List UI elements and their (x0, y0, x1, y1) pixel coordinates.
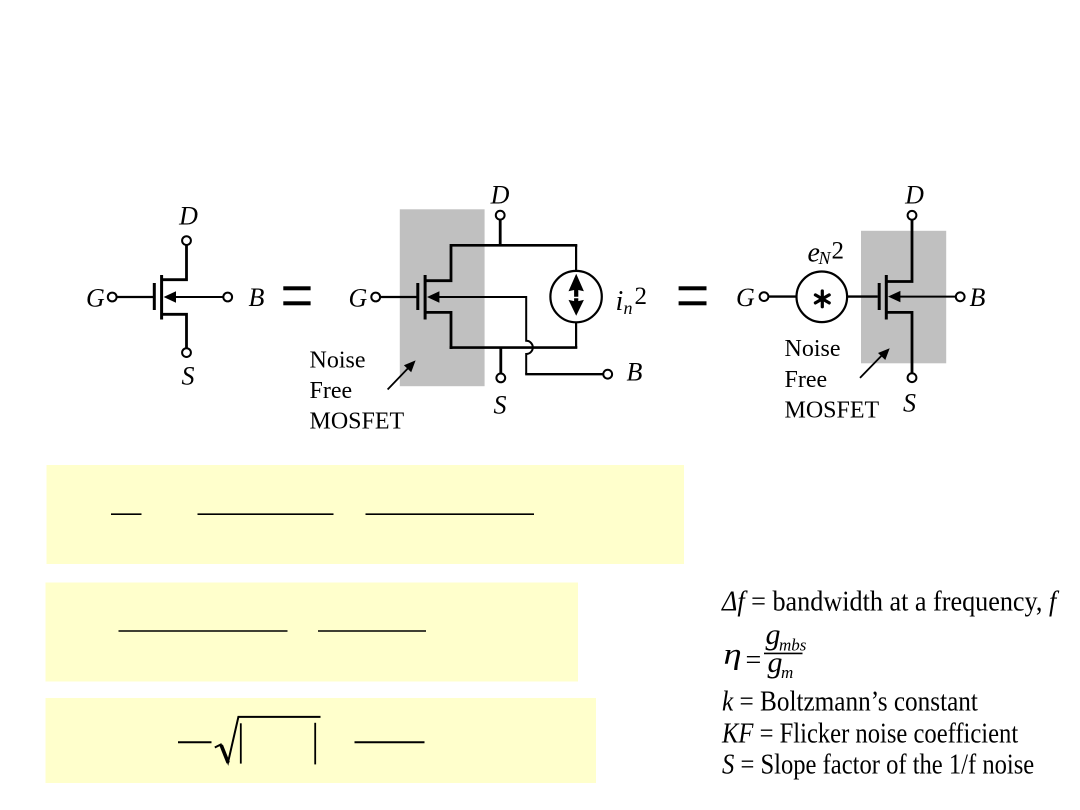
transistor M2 channel bar (424, 275, 427, 320)
M1 gate wire (117, 296, 153, 298)
eq3 fraction bar (355, 741, 425, 743)
svg-text:n: n (624, 298, 633, 318)
svg-text:KF = Flicker noise coefficient: KF = Flicker noise coefficient (721, 717, 1019, 749)
svg-text:Δf = bandwidth at a frequency,: Δf = bandwidth at a frequency, f (721, 584, 1059, 617)
eta fraction denominator g_m (768, 646, 794, 682)
noise voltage source e_N^2 circle (797, 272, 848, 323)
M1 bulk wire (170, 296, 223, 298)
definition line: Boltzmann (722, 685, 978, 717)
terminal S of M3 (908, 373, 917, 382)
annotation arrow (fig 2) (388, 360, 416, 389)
svg-text:D: D (904, 180, 924, 209)
svg-text:2: 2 (832, 238, 845, 265)
svg-text:G: G (736, 283, 755, 312)
svg-text:Free: Free (785, 367, 828, 393)
svg-text:G: G (349, 283, 368, 312)
current source arrow up (569, 274, 584, 297)
terminal B of M2 (603, 370, 612, 379)
eq3 radical sign (215, 717, 321, 763)
terminal S of M1 (182, 348, 191, 357)
current source i_n^2 circle (550, 271, 601, 322)
M2 bulk wire to B terminal (525, 373, 603, 375)
M3 drain wire (887, 220, 912, 282)
terminal S of M2 (496, 374, 505, 383)
svg-text:η: η (724, 638, 742, 671)
svg-text:D: D (490, 180, 510, 209)
M2 source wire down to rail (426, 312, 451, 349)
svg-text:B: B (627, 358, 643, 387)
M2 bulk wire horizontal (433, 296, 526, 298)
eq1 fraction bar c (366, 513, 535, 515)
noise-free region (gray box) fig 3 (861, 231, 946, 363)
terminal G of M1 (108, 293, 117, 302)
svg-text:MOSFET: MOSFET (785, 397, 880, 423)
definition line: bandwidth (721, 584, 1059, 617)
wire from D terminal to top rail (499, 220, 502, 245)
eq1 fraction bar a (111, 513, 142, 515)
M3 source wire (887, 312, 912, 373)
M2 bulk arrowhead (427, 291, 439, 302)
definition eta symbol (724, 638, 742, 671)
transistor M3 gate bar (878, 283, 881, 310)
definition line: slope factor (722, 748, 1034, 780)
equals sign 1 (283, 286, 310, 305)
svg-text:m: m (781, 663, 793, 682)
yellow equation box 1 (47, 465, 685, 564)
eta fraction bar (764, 652, 803, 654)
terminal B of M3 (956, 292, 965, 301)
annotation arrow (fig 3) (860, 348, 890, 378)
terminal B of M1 (223, 293, 232, 302)
svg-text:B: B (249, 283, 265, 312)
eta fraction numerator g_mbs (766, 618, 807, 655)
eq3 right vertical bar (314, 723, 316, 765)
wire from bottom rail to S terminal (499, 348, 502, 374)
terminal D of M3 (908, 211, 917, 220)
M1 source wire (163, 314, 187, 348)
current source arrow down (569, 298, 584, 316)
svg-text:Noise: Noise (310, 348, 366, 374)
svg-text:mbs: mbs (779, 636, 807, 655)
eq3 minus bar (178, 741, 212, 743)
svg-text:G: G (86, 283, 105, 312)
noise-free region (gray box) (400, 209, 485, 386)
wire G terminal to noise source (768, 295, 796, 297)
svg-text:Noise: Noise (785, 336, 841, 362)
M2 drain wire up to rail (426, 246, 451, 280)
transistor M3 channel bar (885, 275, 888, 320)
terminal G of M2 (371, 293, 380, 302)
svg-text:D: D (178, 202, 198, 231)
top rail wire (450, 244, 578, 247)
definition line: flicker noise coefficient (721, 717, 1019, 749)
transistor M2 gate bar (416, 283, 419, 310)
svg-text:B: B (970, 283, 986, 312)
M2 bulk wire vertical with hop over bottom rail (526, 296, 533, 374)
label e_N^2 (808, 238, 845, 269)
equals sign 2 (679, 286, 707, 305)
svg-text:S: S (903, 389, 916, 418)
svg-text:MOSFET: MOSFET (310, 409, 405, 435)
terminal D of M2 (496, 211, 505, 220)
M2 gate wire (380, 296, 417, 298)
label i_n^2 (616, 283, 648, 318)
transistor M1 channel bar (160, 275, 163, 320)
M1 drain wire (163, 245, 187, 280)
eq3 left vertical bar (240, 723, 242, 763)
svg-text:S = Slope factor of the 1/f no: S = Slope factor of the 1/f noise (722, 748, 1034, 780)
eq3 radical thick downstroke (221, 745, 228, 763)
svg-text:N: N (818, 248, 832, 268)
svg-text:k = Boltzmann’s constant: k = Boltzmann’s constant (722, 685, 978, 717)
terminal G of M3 (760, 292, 769, 301)
wire from top rail to current source (575, 245, 577, 272)
bottom rail wire (450, 346, 578, 349)
eq2 fraction bar a (119, 630, 288, 632)
svg-text:Free: Free (310, 378, 353, 404)
svg-text:i: i (616, 286, 624, 317)
wire noise source to M3 gate (847, 295, 878, 297)
M3 bulk wire (893, 296, 956, 298)
terminal D of M1 (182, 236, 191, 245)
eq1 fraction bar b (198, 513, 334, 515)
svg-text:2: 2 (635, 283, 648, 310)
yellow equation box 3 (46, 698, 597, 783)
annotation text Noise Free MOSFET (fig 2) (310, 348, 405, 435)
svg-text:=: = (746, 645, 762, 676)
asterisk inside noise source (815, 291, 829, 307)
svg-text:S: S (182, 361, 195, 390)
transistor M1 gate bar (153, 283, 156, 310)
M3 bulk arrowhead (888, 291, 900, 302)
annotation text Noise Free MOSFET (fig 3) (785, 336, 880, 423)
svg-text:S: S (494, 391, 507, 420)
yellow equation box 2 (46, 583, 579, 682)
wire from current source to bottom rail (575, 322, 577, 348)
eq2 fraction bar b (318, 630, 426, 632)
M1 bulk arrowhead (164, 291, 176, 302)
